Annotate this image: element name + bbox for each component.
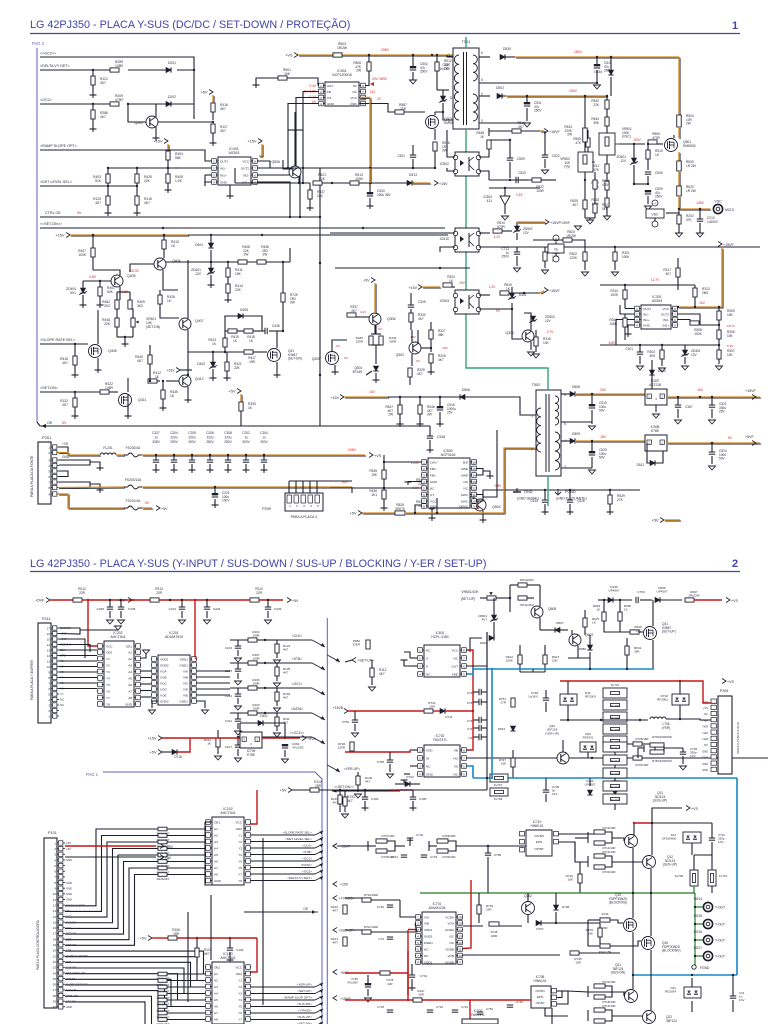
- svg-text:+15V: +15V: [166, 368, 175, 372]
- vsc terminal block: [646, 200, 679, 227]
- capacitor C759: [636, 590, 652, 603]
- svg-text:+15V: +15V: [248, 139, 257, 143]
- svg-text:HIN6101: HIN6101: [530, 824, 543, 828]
- svg-text:GNDA: GNDA: [445, 928, 455, 932]
- svg-text:(SET-UP): (SET-UP): [662, 630, 676, 634]
- svg-text:Q408: Q408: [108, 349, 117, 353]
- capacitor C747: [378, 937, 393, 941]
- wire: [166, 261, 290, 263]
- svg-text:GND: GND: [214, 879, 222, 883]
- svg-text:Y1: Y1: [238, 978, 242, 982]
- svg-text:<DATA>: <DATA>: [291, 707, 303, 711]
- transistor Q22: [643, 1011, 678, 1024]
- svg-text:FL715: FL715: [611, 798, 620, 802]
- svg-text:10K: 10K: [501, 762, 506, 766]
- svg-text:100R: 100R: [252, 707, 260, 711]
- resistor array R135..R161 /4K7: [157, 972, 205, 1024]
- resistor R726: [380, 971, 394, 986]
- resistor R519: [500, 283, 540, 295]
- svg-text:A6: A6: [214, 1004, 218, 1008]
- capacitor bank C738/C711/C14: [467, 717, 487, 740]
- svg-text:IN2-: IN2-: [243, 173, 249, 177]
- wire base node: [235, 176, 310, 184]
- diode D707: [536, 920, 600, 931]
- transistor Q12: [643, 855, 678, 869]
- svg-text:<SLOPE RATE SEL>: <SLOPE RATE SEL>: [40, 338, 75, 342]
- svg-text:D201: D201: [168, 61, 176, 65]
- svg-text:VOB: VOB: [160, 675, 167, 679]
- svg-text:PAG 2: PAG 2: [32, 41, 45, 46]
- annotation 4.2V: [121, 290, 129, 294]
- resistor R739: [586, 923, 603, 944]
- svg-text:<RAMP SLOPE OPT>: <RAMP SLOPE OPT>: [40, 144, 77, 148]
- resistor R738: [489, 922, 499, 938]
- wire: [653, 405, 660, 418]
- svg-text:22R: 22R: [156, 591, 163, 595]
- annotation: [370, 90, 382, 101]
- svg-text:Q412: Q412: [195, 377, 204, 381]
- buffer IC202: [97, 631, 141, 707]
- svg-text:C74: C74: [378, 937, 384, 941]
- terminal M214: [694, 897, 725, 912]
- svg-text:10K: 10K: [727, 334, 734, 338]
- resistor R520: [677, 185, 696, 210]
- wire: [37, 422, 430, 428]
- annotation 6.8V: [609, 341, 617, 345]
- svg-text:SWE: SWE: [461, 473, 468, 477]
- resistor R113: [91, 70, 108, 95]
- wire: [345, 750, 410, 752]
- fuse FS201/4A: [58, 494, 168, 511]
- ferrite FL714: [603, 781, 627, 791]
- fuse FS202/4A: [116, 446, 142, 457]
- wire: [520, 669, 545, 672]
- svg-text:C736: C736: [516, 1000, 523, 1004]
- ground: [125, 416, 132, 419]
- svg-text:4K7: 4K7: [332, 941, 338, 945]
- svg-text:+5V: +5V: [350, 511, 357, 515]
- svg-text:+5V: +5V: [150, 750, 157, 754]
- svg-text:2: 2: [448, 119, 450, 123]
- buffer IC201: [151, 631, 197, 705]
- svg-text:4K7: 4K7: [438, 358, 444, 362]
- ground: [528, 352, 535, 356]
- node <OC2>: [40, 98, 52, 102]
- svg-text:0.9V: 0.9V: [495, 484, 503, 488]
- resistor R313: [693, 285, 710, 308]
- svg-text:AS7218: AS7218: [649, 383, 661, 387]
- svg-text:LG 42PJ350 - PLACA Y-SUS (DC/D: LG 42PJ350 - PLACA Y-SUS (DC/DC / SET-DO…: [30, 18, 350, 31]
- svg-text:PARA A PLACA Z-SUS: PARA A PLACA Z-SUS: [736, 722, 740, 754]
- resistor R403: [93, 174, 110, 183]
- svg-text:22K: 22K: [234, 366, 241, 370]
- svg-text:62K: 62K: [107, 290, 114, 294]
- dual diode D718: [657, 681, 689, 720]
- mosfet Q501: [665, 139, 696, 152]
- svg-text:47K: 47K: [575, 141, 582, 145]
- inductor L706: [650, 717, 717, 730]
- potentiometer VR501: [599, 127, 632, 164]
- wire red out: [262, 736, 316, 742]
- svg-text:VOD: VOD: [160, 687, 167, 691]
- svg-text:M214: M214: [694, 897, 702, 901]
- svg-text:100K: 100K: [622, 255, 630, 259]
- svg-text:+VS: +VS: [727, 680, 734, 684]
- svg-text:R734/100R: R734/100R: [364, 893, 378, 897]
- svg-text:IN1+: IN1+: [643, 318, 650, 322]
- svg-text:1.2K: 1.2K: [175, 179, 183, 183]
- svg-text:2R2/2W: 2R2/2W: [688, 594, 699, 598]
- svg-text:IN: IN: [426, 756, 429, 760]
- svg-text:+5VB: +5VB: [307, 737, 316, 741]
- svg-text:47u/25V: 47u/25V: [292, 746, 304, 750]
- wire: [40, 227, 445, 229]
- resistor R516a: [433, 141, 450, 169]
- svg-text:<CLK>: <CLK>: [302, 844, 312, 848]
- wire IC103 outputs: [251, 983, 323, 1024]
- wire red +15VB rail: [345, 1000, 525, 1024]
- wire red ic103: [250, 938, 257, 972]
- svg-text:1KV: 1KV: [739, 998, 745, 1002]
- resistor R722b: [633, 756, 649, 767]
- resistor R747: [407, 973, 425, 1002]
- connector P101: [36, 831, 65, 1009]
- wire: [107, 167, 211, 169]
- svg-text:0.7V: 0.7V: [547, 330, 554, 334]
- transistor Q602: [569, 630, 593, 658]
- wire: [205, 175, 211, 186]
- resistor R408: [238, 245, 250, 264]
- svg-text:VS: VS: [454, 764, 458, 768]
- svg-text:VOC: VOC: [160, 681, 167, 685]
- svg-text:C235: C235: [128, 607, 136, 611]
- transformer T501: [448, 40, 483, 129]
- svg-text:FL708: FL708: [675, 874, 684, 878]
- wire: [691, 974, 734, 1012]
- svg-text:VCC: VCC: [430, 499, 437, 503]
- svg-text:+5V: +5V: [140, 936, 147, 940]
- svg-text:GND1: GND1: [179, 663, 188, 667]
- svg-text:C754: C754: [486, 1007, 493, 1011]
- buffer IC102: [205, 807, 251, 885]
- transistor Q302: [396, 335, 421, 363]
- wire: [40, 391, 100, 393]
- wire: [330, 487, 421, 489]
- svg-text:C228: C228: [97, 607, 105, 611]
- svg-text:1R 2W: 1R 2W: [686, 189, 696, 193]
- svg-text:47K: 47K: [686, 218, 693, 222]
- svg-text:CLK: CLK: [66, 926, 71, 930]
- svg-text:12V: 12V: [620, 159, 627, 163]
- svg-text:22K: 22K: [144, 179, 151, 183]
- svg-text:RF2061: RF2061: [657, 698, 668, 702]
- svg-text:<SUS-UP>: <SUS-UP>: [297, 1015, 312, 1019]
- resistor R413: [162, 235, 179, 258]
- svg-text:(GND FLUTUANTE): (GND FLUTUANTE): [556, 497, 587, 501]
- node <<OC2>>: [237, 731, 325, 744]
- connector P206: [702, 689, 740, 774]
- svg-text:C102: C102: [236, 948, 244, 952]
- svg-text:(YER): (YER): [662, 726, 671, 730]
- wire VOB: [463, 954, 560, 956]
- svg-text:GND: GND: [702, 756, 708, 760]
- annotation 18.7V: [727, 324, 736, 328]
- resistor R628: [618, 599, 631, 628]
- svg-text:R611/2K2: R611/2K2: [520, 603, 534, 607]
- svg-text:300V: 300V: [242, 440, 250, 444]
- resistor R209: [110, 94, 124, 106]
- resistor R446: [102, 309, 119, 337]
- resistor R627: [583, 610, 600, 635]
- opto-driver IC601: [417, 631, 467, 677]
- wire: [435, 112, 453, 140]
- resistor R289: [110, 60, 124, 72]
- power +15V: [166, 368, 180, 373]
- resistor R329: [408, 368, 425, 385]
- resistor R286b: [542, 247, 561, 274]
- svg-text:A7: A7: [214, 1011, 218, 1015]
- svg-text:C214: C214: [169, 607, 177, 611]
- resistor R637: [685, 590, 722, 602]
- svg-text:A1: A1: [128, 650, 132, 654]
- wire: [633, 183, 648, 185]
- svg-text:5.9V: 5.9V: [727, 344, 734, 348]
- ground: [160, 408, 167, 411]
- ground symbols GERAL: [513, 488, 539, 501]
- resistor R124: [272, 640, 291, 664]
- svg-text:R733/22R: R733/22R: [442, 855, 455, 859]
- svg-text:16V: 16V: [369, 390, 376, 394]
- capacitor C217: [225, 737, 242, 762]
- resistor R307: [716, 344, 735, 370]
- svg-text:12V: 12V: [545, 319, 552, 323]
- svg-text:+VS: +VS: [691, 807, 698, 811]
- svg-text:FL201: FL201: [103, 446, 113, 450]
- svg-text:A1: A1: [214, 972, 218, 976]
- transistor Q605: [531, 585, 556, 630]
- svg-text:AS393: AS393: [229, 151, 240, 155]
- wire: [667, 388, 761, 398]
- resistor R701: [362, 925, 417, 934]
- svg-text:VCC: VCC: [350, 96, 357, 100]
- power +5VF 2: [117, 598, 150, 603]
- svg-text:E78E: E78E: [247, 753, 255, 757]
- resistor pair R737/R736: [368, 834, 405, 859]
- svg-text:4K7: 4K7: [365, 780, 371, 784]
- buffer IC103: [205, 952, 251, 1024]
- svg-text:15V: 15V: [410, 335, 416, 339]
- svg-text:C202: C202: [242, 431, 250, 435]
- capacitor C102: [227, 938, 244, 963]
- diode D702: [395, 775, 420, 787]
- svg-text:GND2: GND2: [160, 699, 169, 703]
- resistor R184: [272, 688, 291, 712]
- capacitor C518: [427, 426, 446, 453]
- svg-text:15: 15: [458, 921, 462, 925]
- wire 160V rail: [515, 50, 680, 116]
- svg-text:NCP3163: NCP3163: [441, 453, 456, 457]
- svg-text:C518: C518: [437, 435, 445, 439]
- svg-text:308V: 308V: [152, 440, 160, 444]
- svg-text:10K: 10K: [552, 659, 558, 663]
- node <DATA>: [277, 707, 325, 720]
- wire: [412, 330, 418, 366]
- svg-text:220u: 220u: [170, 436, 177, 440]
- svg-text:GND: GND: [66, 892, 72, 896]
- svg-text:VIE: VIE: [183, 693, 188, 697]
- resistor R734: [362, 893, 400, 902]
- wire orange VCC: [360, 98, 371, 185]
- svg-text:GND: GND: [702, 749, 708, 753]
- capacitor C31: [730, 975, 745, 1012]
- power +5VB: [333, 970, 349, 976]
- svg-text:12V: 12V: [195, 272, 202, 276]
- resistor R301: [612, 246, 631, 276]
- node <Y-PASS>: [333, 896, 354, 901]
- wire red left: [472, 711, 474, 713]
- svg-text:C226: C226: [274, 607, 282, 611]
- svg-text:(BLOCKING): (BLOCKING): [609, 901, 628, 905]
- svg-text:220u: 220u: [224, 436, 231, 440]
- wire: [479, 232, 490, 234]
- terminal M216: [694, 930, 725, 945]
- svg-text:VCC: VCC: [242, 159, 249, 163]
- resistor R203: [230, 703, 272, 715]
- svg-text:GND1: GND1: [179, 699, 188, 703]
- svg-text:11V: 11V: [370, 90, 376, 94]
- capacitor C724: [452, 1005, 469, 1012]
- svg-text:OE2: OE2: [236, 827, 242, 831]
- svg-text:1u: 1u: [244, 436, 248, 440]
- svg-text:NC: NC: [454, 772, 459, 776]
- node <SUS-UP> in: [345, 929, 362, 931]
- transistor Q21: [611, 963, 638, 1003]
- power +5V ic102: [280, 788, 310, 793]
- wire: [561, 440, 570, 442]
- resistor R725: [620, 737, 655, 752]
- wire CS: [295, 98, 318, 170]
- svg-text:<<SET-DN>>: <<SET-DN>>: [40, 222, 62, 226]
- svg-text:OUT1: OUT1: [643, 307, 652, 311]
- svg-text:D634: D634: [498, 727, 506, 731]
- svg-text:1KV: 1KV: [718, 840, 724, 844]
- resistor R435: [161, 380, 178, 408]
- svg-text:BT169: BT169: [353, 370, 363, 374]
- svg-text:33ER: 33ER: [352, 643, 360, 647]
- svg-text:NC: NC: [424, 954, 429, 958]
- wire teal T502: [547, 375, 549, 506]
- resistor R617: [543, 645, 560, 672]
- svg-text:D716: D716: [174, 755, 182, 759]
- svg-text:<SET-UP>: <SET-UP>: [297, 989, 312, 993]
- ground: [625, 334, 632, 337]
- svg-text:(SET-DN): (SET-DN): [288, 357, 302, 361]
- svg-text:2M2: 2M2: [702, 291, 708, 295]
- svg-text:D513: D513: [409, 173, 417, 177]
- resistor R532: [591, 96, 609, 117]
- capacitor C721: [709, 823, 726, 855]
- diode D506: [460, 388, 536, 415]
- transistor Q32: [545, 724, 569, 764]
- resistor R729: [281, 293, 298, 318]
- svg-text:VIC: VIC: [183, 681, 189, 685]
- svg-text:GNDB: GNDB: [445, 960, 454, 964]
- svg-text:1R/2W: 1R/2W: [337, 46, 348, 50]
- optocoupler IC503: [440, 290, 481, 314]
- svg-text:FL714: FL714: [611, 785, 620, 789]
- capacitor C213: [697, 209, 719, 237]
- svg-text:NC: NC: [464, 486, 469, 490]
- connector P211 labels: [60, 626, 71, 707]
- svg-text:RF2001: RF2001: [585, 695, 596, 699]
- svg-text:(Vy): (Vy): [564, 165, 570, 169]
- svg-text:2W: 2W: [567, 133, 572, 137]
- wire: [616, 305, 634, 345]
- svg-text:GND: GND: [702, 768, 708, 772]
- wire blue link: [491, 668, 493, 779]
- capacitor C527: [440, 57, 461, 90]
- svg-text:150V: 150V: [633, 138, 641, 142]
- diode D401: [195, 234, 213, 263]
- zener ZD404: [66, 281, 111, 305]
- svg-text:220R: 220R: [389, 340, 397, 344]
- svg-text:6: 6: [481, 51, 483, 55]
- wire red IC201: [195, 658, 197, 659]
- svg-text:4K7: 4K7: [62, 403, 68, 407]
- svg-text:R724/10R: R724/10R: [602, 980, 615, 984]
- svg-text:12V: 12V: [523, 231, 530, 235]
- resistor R629: [593, 599, 606, 628]
- svg-text:Q605: Q605: [548, 607, 556, 611]
- svg-text:39K: 39K: [634, 650, 640, 654]
- wire red VDDB: [463, 880, 471, 949]
- svg-text:FGND: FGND: [565, 490, 576, 494]
- wire: [108, 205, 137, 213]
- svg-text:LVIO: LVIO: [430, 460, 437, 464]
- power +15V: [154, 139, 170, 153]
- capacitor C743: [421, 855, 438, 859]
- svg-text:+5VF: +5VF: [745, 435, 754, 439]
- capacitor C748: [528, 690, 549, 712]
- wire: [130, 258, 178, 290]
- svg-text:+15VF: +15VF: [549, 130, 560, 134]
- svg-text:+5V: +5V: [66, 847, 71, 851]
- svg-text:28: 28: [53, 994, 57, 998]
- svg-text:C309: C309: [418, 300, 426, 304]
- svg-text:12: 12: [458, 941, 462, 945]
- svg-text:+5V: +5V: [280, 788, 287, 792]
- power +5V p101: [65, 855, 172, 861]
- svg-text:Y4: Y4: [238, 998, 242, 1002]
- svg-text:C505: C505: [655, 171, 663, 175]
- resistor R422: [100, 382, 118, 394]
- wire: [561, 393, 570, 395]
- regulator IC508: [645, 425, 667, 451]
- wire: [677, 301, 706, 308]
- resistor pair R729/R733: [429, 834, 530, 859]
- svg-text:Q405: Q405: [127, 274, 136, 278]
- svg-text:IC510: IC510: [440, 237, 449, 241]
- capacitor C749: [543, 778, 560, 802]
- svg-text:FGND: FGND: [700, 966, 710, 970]
- resistor R536: [369, 489, 387, 511]
- svg-text:C327: C327: [152, 431, 160, 435]
- svg-text:D708: D708: [562, 905, 570, 909]
- svg-text:+5V: +5V: [201, 90, 208, 94]
- wire blue bottom: [473, 778, 737, 975]
- svg-text:DELTA VY DET: DELTA VY DET: [66, 903, 85, 907]
- wire IC102 outputs: [251, 831, 323, 881]
